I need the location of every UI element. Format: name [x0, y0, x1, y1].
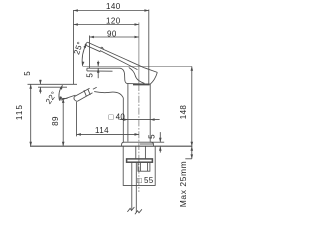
- svg-text:89: 89: [51, 116, 60, 126]
- extension line handle tip vertical: [76, 102, 78, 137]
- dim 5 right label: [148, 134, 157, 139]
- lever tip cap: [85, 42, 87, 45]
- base plate inner line: [140, 143, 154, 145]
- svg-text:148: 148: [179, 105, 188, 120]
- spout outer corner to shoulder: [120, 68, 129, 83]
- angle 25 deg label: [72, 40, 85, 55]
- lever bottom edge: [85, 45, 138, 70]
- hose break symbol left: [127, 207, 134, 212]
- dim 115 line: [30, 84, 32, 146]
- spout top edge: [87, 67, 120, 69]
- lever click bump: [100, 47, 103, 49]
- svg-text:5: 5: [86, 73, 95, 78]
- dim 5 left: lower arrow: [39, 87, 41, 93]
- dim square40 line: [120, 119, 160, 121]
- body shoulder bottom edge: [128, 83, 151, 85]
- dim 90 text: [107, 29, 117, 38]
- angle 22 deg arc: [59, 85, 63, 100]
- handle tilted down: bottom edge: [77, 93, 92, 102]
- dim max25 label: [178, 161, 188, 207]
- max-height reference line (light gray): [83, 66, 192, 68]
- dim 5 right: upper arrow: [159, 132, 161, 142]
- lever top edge: [87, 42, 144, 68]
- dim 89 label: [51, 116, 60, 126]
- extension line left (lever reach): [73, 10, 75, 84]
- extension line spout tip: [89, 36, 91, 69]
- svg-text:114: 114: [95, 126, 109, 135]
- beak top edge: [144, 68, 157, 73]
- dim 5 spout tip label: [86, 73, 95, 78]
- dim 5 left label: [23, 71, 32, 76]
- extension line body right: [148, 10, 150, 85]
- spout tip cap: [86, 68, 88, 71]
- dim 5 right: lower arrow: [159, 146, 161, 152]
- dim 90 line: [90, 36, 139, 38]
- dim 115 label: [15, 104, 24, 120]
- handle tilted down: grip joint lines: [84, 89, 90, 96]
- centerline of faucet: [138, 23, 140, 85]
- extension line handle-down top: [38, 86, 67, 88]
- supply hose left: [131, 162, 133, 210]
- square55 label: [137, 176, 154, 185]
- dim 148 line: [191, 66, 193, 158]
- mounting nut: [138, 162, 150, 171]
- aerator: [133, 83, 150, 85]
- clearance box square55: [123, 146, 155, 185]
- svg-text:□ 55: □ 55: [137, 176, 154, 185]
- dim 5 left: upper arrow: [39, 80, 41, 85]
- dim max25 arrows: [191, 146, 194, 150]
- mounting washer: [127, 159, 153, 162]
- spout underside: [87, 70, 113, 72]
- extension line top of faucet height: [28, 83, 78, 85]
- nut facet lines: [140, 162, 147, 171]
- hose break symbol right: [135, 209, 142, 214]
- body inner contour: [129, 68, 145, 84]
- base plate: [122, 142, 154, 146]
- svg-text:115: 115: [15, 104, 24, 120]
- dim 120 text: [106, 17, 121, 26]
- dim square40 label: [109, 112, 126, 121]
- svg-text:5: 5: [148, 134, 157, 139]
- svg-text:5: 5: [23, 71, 32, 76]
- threaded shank left: [135, 146, 137, 159]
- angle 25 deg arc: [82, 44, 86, 66]
- dim 89 line: [62, 99, 64, 147]
- dim 5 right ext: [150, 141, 164, 143]
- dim 114 label: [95, 126, 109, 135]
- body dome outline: [94, 92, 123, 143]
- body column right edge: [149, 84, 151, 142]
- deck underside right: [185, 158, 192, 160]
- svg-text:□ 40: □ 40: [109, 112, 126, 121]
- svg-text:Max 25mm: Max 25mm: [178, 161, 188, 207]
- dim 5 spout tip: upper arrow: [97, 61, 99, 67]
- handle tilted down: neck: [93, 87, 97, 89]
- dim 140 text: [106, 2, 121, 11]
- dim 140 line: [74, 10, 149, 12]
- dim 5 spout tip: lower arrow: [97, 68, 99, 78]
- body column left edge: [127, 84, 129, 142]
- angle 22 deg label: [44, 90, 59, 106]
- angle 22 deg leader: [61, 95, 76, 100]
- extension line handle-down underside: [60, 97, 68, 99]
- dim 148 label: [179, 105, 188, 120]
- svg-text:140: 140: [106, 2, 121, 11]
- dim 120 line: [74, 24, 139, 26]
- supply hose right: [135, 162, 137, 212]
- beak right edge: [150, 72, 157, 84]
- deck line: [30, 145, 192, 147]
- handle tilted down: top edge: [74, 88, 89, 96]
- dim 114 line: [77, 133, 139, 135]
- handle tilted down: rounded tip: [74, 97, 77, 102]
- threaded shank right: [144, 146, 146, 159]
